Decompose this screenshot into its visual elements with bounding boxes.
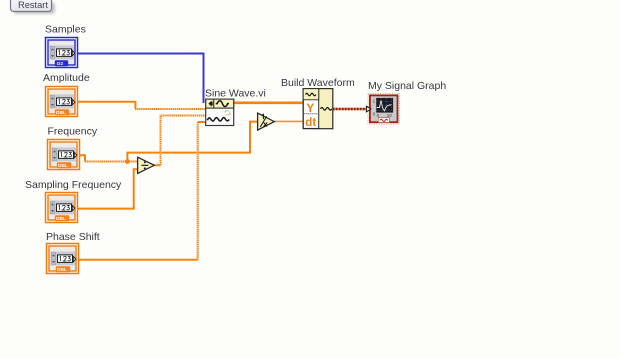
svg-text:Phase Shift: Phase Shift [46, 231, 100, 243]
svg-text:Build Waveform: Build Waveform [281, 77, 355, 89]
svg-text:dt: dt [305, 117, 316, 129]
svg-text:DBL: DBL [58, 163, 68, 169]
svg-text:Amplitude: Amplitude [43, 72, 90, 84]
svg-text:Samples: Samples [45, 24, 86, 36]
svg-text:Y: Y [306, 101, 314, 115]
svg-text:DBL: DBL [56, 110, 66, 116]
svg-text:Frequency: Frequency [48, 126, 98, 138]
svg-text:I32: I32 [57, 61, 64, 67]
svg-text:Restart: Restart [18, 0, 48, 10]
svg-text:Sine Wave.vi: Sine Wave.vi [205, 88, 266, 100]
svg-text:My Signal Graph: My Signal Graph [368, 80, 446, 92]
svg-text:DBL: DBL [56, 216, 66, 222]
svg-text:Sampling Frequency: Sampling Frequency [25, 179, 122, 191]
svg-text:DBL: DBL [57, 267, 67, 273]
